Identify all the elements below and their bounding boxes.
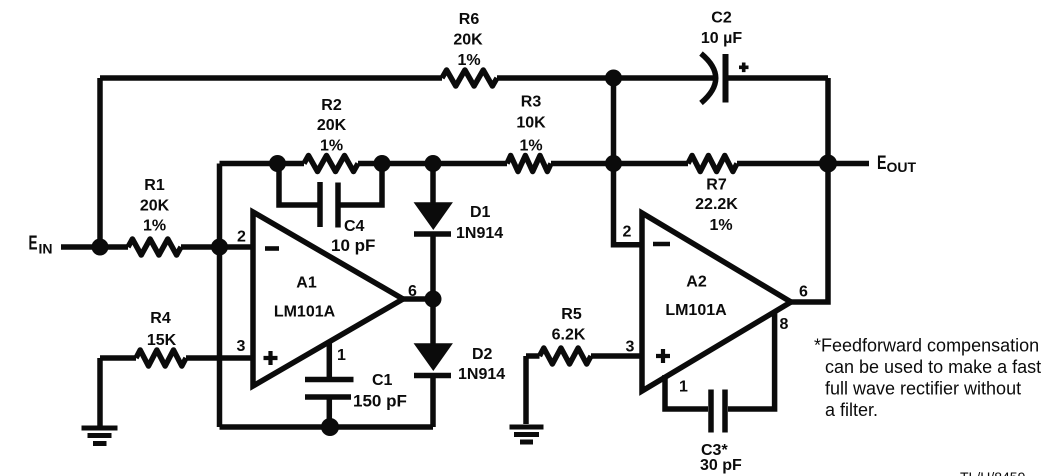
svg-text:3: 3 xyxy=(237,338,246,355)
svg-text:R3: R3 xyxy=(521,94,542,111)
svg-text:1: 1 xyxy=(679,379,688,396)
svg-text:6.2K: 6.2K xyxy=(552,327,586,344)
svg-text:C4: C4 xyxy=(344,218,365,235)
svg-text:1%: 1% xyxy=(457,52,480,69)
svg-text:20K: 20K xyxy=(140,198,170,215)
svg-text:10K: 10K xyxy=(516,115,546,132)
svg-text:3: 3 xyxy=(626,339,635,356)
svg-text:30 pF: 30 pF xyxy=(700,457,742,474)
svg-text:20K: 20K xyxy=(453,32,483,49)
svg-text:1%: 1% xyxy=(519,138,542,155)
svg-text:D2: D2 xyxy=(472,346,493,363)
svg-text:A2: A2 xyxy=(686,274,707,291)
svg-text:a filter.: a filter. xyxy=(825,400,878,420)
svg-text:6: 6 xyxy=(408,283,417,300)
svg-text:1%: 1% xyxy=(709,217,732,234)
svg-text:LM101A: LM101A xyxy=(665,302,727,319)
svg-text:R1: R1 xyxy=(144,177,165,194)
svg-text:R5: R5 xyxy=(561,306,582,323)
svg-text:2: 2 xyxy=(623,224,632,241)
svg-text:C1: C1 xyxy=(372,372,393,389)
svg-text:E: E xyxy=(877,153,887,174)
svg-text:8: 8 xyxy=(780,316,789,333)
svg-text:1N914: 1N914 xyxy=(458,366,505,383)
svg-text:E: E xyxy=(29,233,38,255)
svg-text:TL/H/8459: TL/H/8459 xyxy=(960,469,1026,476)
svg-text:10 µF: 10 µF xyxy=(701,30,742,47)
svg-text:2: 2 xyxy=(237,229,246,246)
svg-text:20K: 20K xyxy=(317,117,347,134)
svg-text:10 pF: 10 pF xyxy=(331,236,375,255)
svg-text:A1: A1 xyxy=(296,275,317,292)
svg-text:OUT: OUT xyxy=(887,159,917,175)
svg-text:can be used to make a fast: can be used to make a fast xyxy=(825,357,1041,377)
svg-text:R2: R2 xyxy=(321,97,342,114)
svg-text:15K: 15K xyxy=(147,332,177,349)
svg-text:1%: 1% xyxy=(143,218,166,235)
svg-text:LM101A: LM101A xyxy=(274,304,336,321)
svg-text:22.2K: 22.2K xyxy=(695,196,738,213)
svg-text:IN: IN xyxy=(39,241,53,257)
svg-text:150 pF: 150 pF xyxy=(353,392,407,411)
svg-text:R4: R4 xyxy=(150,310,171,327)
svg-text:1: 1 xyxy=(337,347,346,364)
svg-text:6: 6 xyxy=(799,284,808,301)
svg-text:D1: D1 xyxy=(470,204,491,221)
svg-text:C2: C2 xyxy=(711,10,732,27)
svg-text:R6: R6 xyxy=(459,11,480,28)
svg-text:1%: 1% xyxy=(320,138,343,155)
svg-text:full wave rectifier without: full wave rectifier without xyxy=(825,379,1021,399)
svg-text:1N914: 1N914 xyxy=(456,225,503,242)
svg-text:R7: R7 xyxy=(706,177,727,194)
svg-text:*Feedforward compensation: *Feedforward compensation xyxy=(814,336,1039,356)
